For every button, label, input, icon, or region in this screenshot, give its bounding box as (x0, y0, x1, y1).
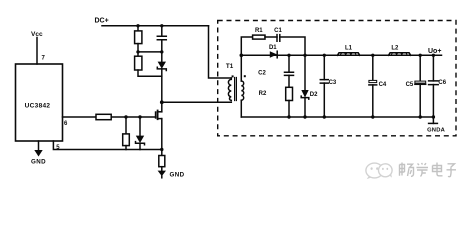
svg-text:T1: T1 (226, 63, 234, 70)
svg-text:C6: C6 (438, 80, 446, 86)
svg-text:C5: C5 (406, 82, 414, 88)
svg-text:DC+: DC+ (95, 18, 109, 25)
svg-text:GNDA: GNDA (427, 127, 445, 133)
svg-text:GND: GND (31, 159, 46, 166)
svg-text:C2: C2 (258, 70, 266, 76)
svg-text:Uo+: Uo+ (428, 48, 441, 55)
svg-text:R1: R1 (255, 28, 263, 34)
svg-text:C1: C1 (274, 28, 282, 34)
svg-text:D2: D2 (310, 92, 318, 98)
svg-text:Vcc: Vcc (31, 31, 43, 38)
svg-text:L1: L1 (345, 46, 353, 52)
svg-text:GND: GND (170, 171, 185, 178)
svg-text:L2: L2 (391, 45, 399, 51)
svg-text:C4: C4 (379, 82, 387, 88)
svg-text:D1: D1 (269, 45, 277, 51)
svg-text:C3: C3 (329, 80, 337, 86)
svg-text:UC3842: UC3842 (25, 102, 51, 109)
svg-text:R2: R2 (259, 91, 267, 97)
